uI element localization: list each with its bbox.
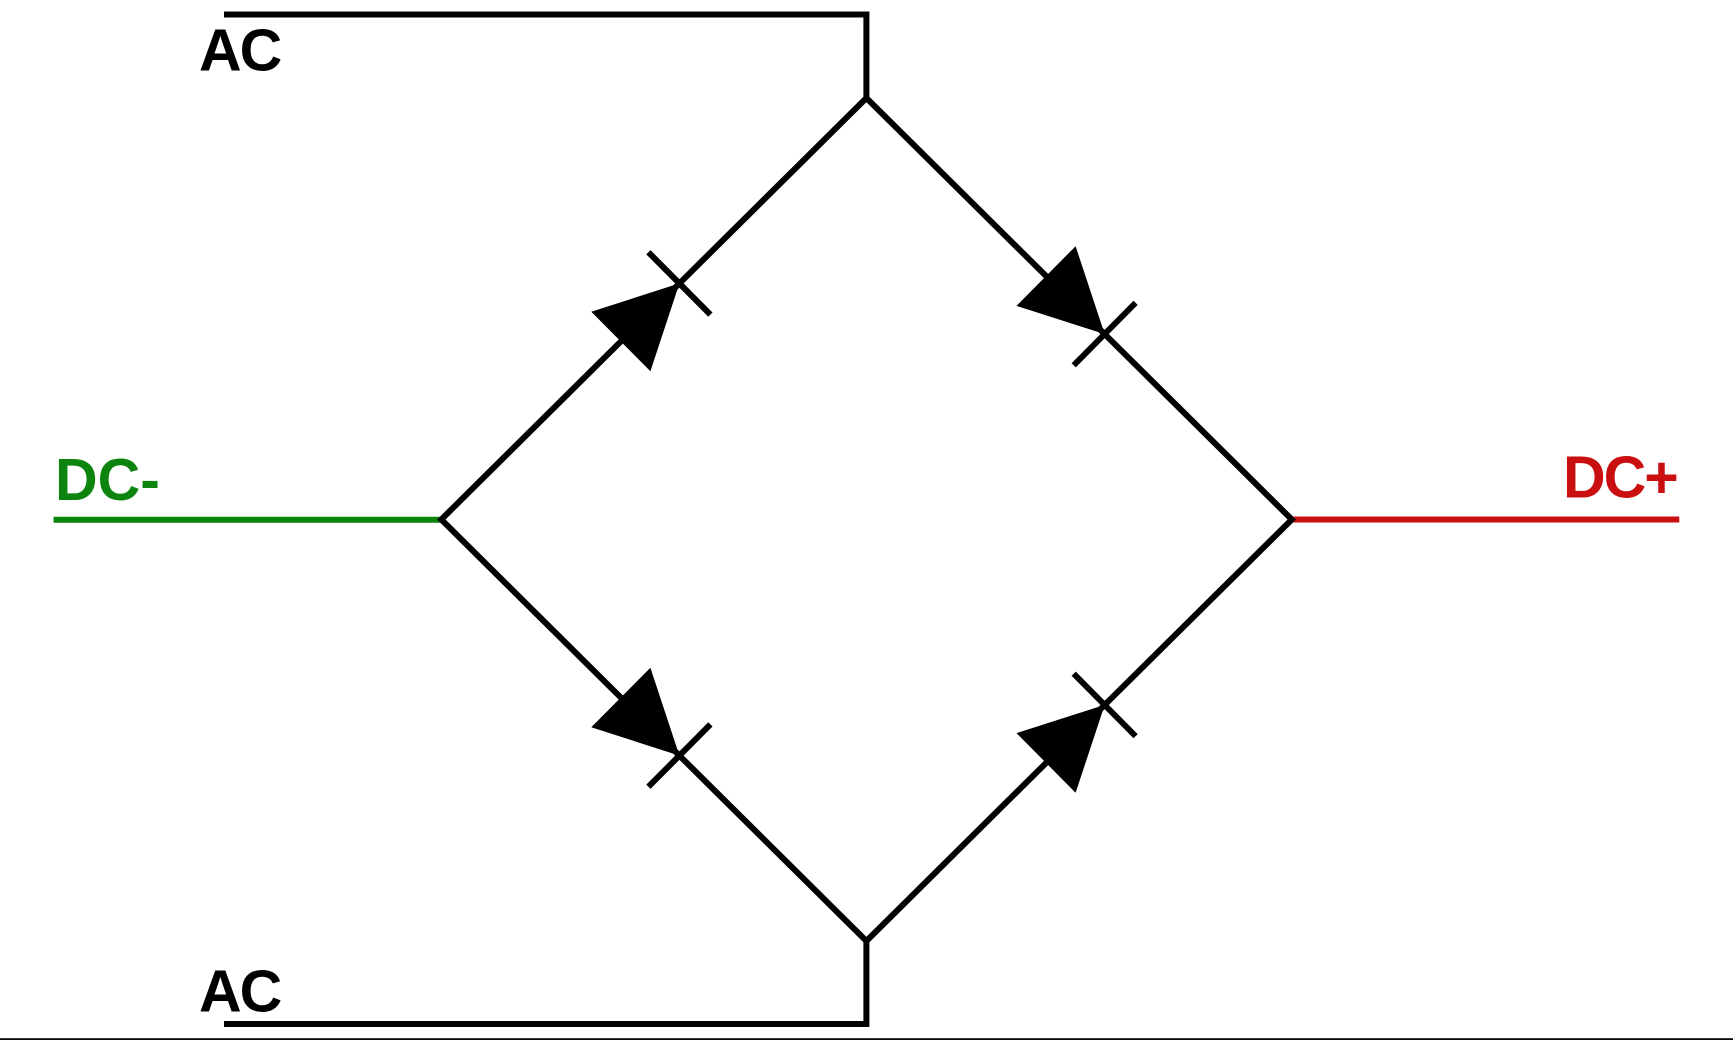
svg-text:DC+: DC+ <box>1563 445 1677 511</box>
svg-text:DC-: DC- <box>55 447 160 513</box>
svg-text:AC: AC <box>199 18 281 84</box>
wire: bottom AC feed (riser from bottom node + horizontal) <box>224 941 866 1024</box>
svg-text:AC: AC <box>199 959 281 1025</box>
diode D3 lower-left (anode at DC-, cathode toward bottom AC) <box>591 668 710 787</box>
wire: top AC feed (horizontal + drop to top node) <box>224 15 866 99</box>
diode D4 lower-right (anode at bottom AC, cathode toward DC+) <box>1017 674 1136 793</box>
wire: DC+ output (red) <box>1292 517 1680 523</box>
wire: bridge diamond (four sides) <box>441 98 1292 941</box>
wire: DC- output (green) <box>54 517 442 523</box>
diode D1 upper-left (anode at DC-, cathode toward top AC) <box>591 252 710 371</box>
diode D2 upper-right (anode at top AC, cathode toward DC+) <box>1017 246 1136 365</box>
bottom window border line <box>0 1038 1733 1040</box>
